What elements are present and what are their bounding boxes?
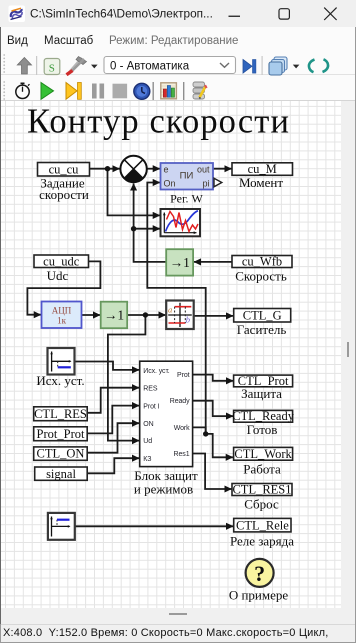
summator — [120, 156, 146, 182]
status divider — [85, 626, 86, 641]
svg-text:b: b — [186, 314, 190, 324]
block CTL_Prot — [234, 374, 293, 388]
step source block 2 — [48, 513, 75, 540]
close button — [324, 8, 336, 20]
svg-text:→1: →1 — [170, 255, 190, 270]
svg-text:Сброс: Сброс — [244, 496, 279, 511]
block CTL_Ready — [232, 409, 295, 423]
gain block 1 — [166, 249, 193, 275]
svg-text:Момент: Момент — [239, 175, 283, 190]
wire CTL_RES to RES — [87, 388, 139, 413]
icon: blue clock — [134, 83, 150, 99]
block Prot_Prot — [34, 427, 87, 441]
separator — [153, 82, 154, 100]
svg-text:АЦП: АЦП — [52, 306, 72, 316]
svg-text:Режим: Редактирование: Режим: Редактирование — [109, 35, 238, 47]
svg-text:C:\SimInTech64\Demo\Электроп..: C:\SimInTech64\Demo\Электроп... — [30, 7, 213, 21]
wire cu_Wfb to gain block — [194, 261, 232, 263]
horizontal scrollbar — [1, 608, 355, 624]
wire ADC to gain block 2 — [82, 314, 101, 316]
wire Prot_Prot to Prot I — [87, 406, 139, 434]
svg-text:cu_udc: cu_udc — [43, 254, 80, 268]
junction Ud — [143, 312, 148, 317]
svg-text:signal: signal — [46, 467, 76, 481]
deadband block — [166, 301, 194, 330]
wire CTL_ON to ON — [87, 423, 139, 453]
svg-text:→1: →1 — [104, 308, 124, 323]
svg-text:1к: 1к — [57, 316, 67, 326]
svg-text:скорости: скорости — [39, 187, 89, 202]
horizontal scrollbar thumb — [169, 613, 187, 615]
svg-text:Работа: Работа — [243, 461, 281, 476]
wire Ud branch to protection block — [108, 315, 145, 441]
svg-text:Work: Work — [174, 425, 190, 432]
svg-text:out: out — [197, 164, 210, 174]
icon: play — [41, 83, 54, 100]
svg-text:Ready: Ready — [170, 398, 190, 405]
icon: database with pencil — [193, 82, 207, 100]
svg-text:Контур скорости: Контур скорости — [27, 103, 290, 141]
block CTL_Work — [234, 447, 293, 461]
icon: pause (disabled) — [92, 84, 104, 99]
toolbar grip row1 — [3, 54, 5, 73]
svg-text:Рег. W: Рег. W — [170, 192, 203, 206]
block CTL_RES — [34, 407, 87, 421]
wire signal to K3 — [87, 458, 139, 473]
vertical scrollbar thumb — [347, 342, 349, 357]
wire Prot output to CTL_Prot — [193, 375, 234, 381]
svg-text:Скорость: Скорость — [235, 268, 287, 283]
junction feedback — [131, 226, 136, 231]
svg-text:Res1: Res1 — [174, 451, 190, 458]
wire cu_cu to summator — [90, 168, 120, 170]
wire Work branch up to PI On — [147, 183, 205, 434]
toolbar row 2 — [1, 75, 355, 101]
block CTL_ON — [34, 447, 87, 461]
icon: tools (hammer + screwdriver) — [67, 57, 87, 75]
wire step source 2 to CTL_Rele — [75, 525, 233, 527]
wire Res1 output to CTL_RES1 — [193, 454, 232, 490]
svg-text:ON: ON — [143, 421, 153, 428]
junction Work — [203, 431, 208, 436]
app icon chip — [9, 6, 26, 23]
svg-text:и режимов: и режимов — [134, 482, 193, 497]
block cu_udc — [34, 254, 89, 268]
svg-text:КЗ: КЗ — [143, 456, 151, 463]
op block PI regulator — [161, 163, 222, 190]
dropdown triangle — [293, 65, 300, 69]
svg-text:Защита: Защита — [241, 386, 282, 401]
window left edge line — [0, 27, 1, 624]
svg-text:Вид: Вид — [7, 35, 28, 47]
icon: stopwatch — [16, 83, 30, 98]
svg-text:cu_Wfb: cu_Wfb — [242, 255, 282, 269]
wire summator to PI input e — [147, 168, 160, 170]
maximize button — [279, 9, 289, 19]
minimize button — [229, 16, 241, 17]
svg-text:cu_cu: cu_cu — [49, 163, 80, 177]
icon: bar chart — [161, 83, 177, 99]
wire speed feedback to summator minus — [134, 184, 167, 262]
schematic canvas — [0, 101, 341, 608]
icon: fast forward to end — [66, 83, 81, 100]
icon: stop (disabled) — [113, 84, 128, 99]
svg-text:Prot_Prot: Prot_Prot — [37, 427, 85, 441]
wire Work output to CTL_Work — [193, 427, 233, 457]
label Блок защит и режимов — [134, 468, 198, 497]
svg-text:CTL_Work: CTL_Work — [234, 447, 292, 461]
block cu_Wfb — [232, 255, 292, 269]
svg-text:Исх. уст.: Исх. уст. — [143, 368, 169, 375]
label Задание скорости — [39, 176, 89, 202]
protection and modes block — [140, 361, 193, 466]
svg-text:?: ? — [254, 561, 265, 586]
svg-text:e: e — [164, 164, 169, 174]
wire branch setpoint to scope input 1 — [108, 169, 160, 216]
combobox — [104, 57, 236, 74]
svg-text:Prot: Prot — [177, 372, 190, 379]
toolbar row 1 — [1, 48, 355, 75]
svg-text:cu_M: cu_M — [248, 162, 277, 176]
svg-text:Готов: Готов — [247, 422, 278, 437]
icon: up arrow (to parent) — [17, 58, 31, 75]
junction setpoint — [105, 166, 110, 171]
svg-text:CTL_Rele: CTL_Rele — [236, 518, 289, 532]
block cu_M — [232, 162, 293, 176]
wire branch feedback to scope input 2 — [134, 228, 160, 230]
icon: script (green S) — [44, 59, 60, 75]
gain block 2 — [101, 302, 128, 329]
wire step source to protection input — [75, 362, 140, 370]
svg-text:Гаситель: Гаситель — [237, 322, 287, 337]
block CTL_RES1 — [232, 482, 292, 496]
svg-text:CTL_RES1: CTL_RES1 — [232, 482, 291, 496]
chrome svg (title, menus, toolbar icons) — [0, 0, 356, 101]
svg-text:О примере: О примере — [229, 587, 289, 602]
icon: layered pages — [269, 57, 287, 75]
icon: teal refresh brackets — [309, 59, 328, 72]
wire deadband to CTL_G — [194, 315, 233, 317]
status bar — [1, 624, 355, 642]
wire Ready output to CTL_Ready — [193, 401, 234, 416]
icon: blue step-run — [243, 60, 256, 74]
svg-text:S: S — [49, 63, 55, 75]
svg-text:CTL_G: CTL_G — [243, 308, 282, 322]
block signal — [35, 467, 87, 481]
toolbar grip row2 — [3, 81, 5, 100]
scope block — [161, 209, 201, 236]
dropdown triangle — [91, 65, 98, 69]
svg-text:Prot I: Prot I — [143, 404, 159, 411]
svg-text:CTL_RES: CTL_RES — [34, 407, 87, 421]
separator — [183, 82, 184, 100]
svg-text:Исх. уст.: Исх. уст. — [36, 373, 84, 388]
separator — [36, 56, 37, 75]
svg-text:On: On — [164, 178, 176, 188]
svg-text:ПИ: ПИ — [180, 171, 194, 182]
block CTL_G — [234, 308, 291, 322]
svg-text:Udc: Udc — [47, 268, 69, 283]
svg-text:Реле заряда: Реле заряда — [230, 534, 294, 549]
block ADC — [42, 302, 82, 329]
block CTL_Rele — [234, 518, 291, 532]
svg-text:Масштаб: Масштаб — [44, 35, 94, 47]
svg-text:pi: pi — [202, 178, 209, 188]
svg-text:a: a — [168, 305, 172, 315]
step source block 1 — [48, 348, 75, 375]
wire cu_udc to ADC — [27, 261, 100, 314]
vertical scrollbar — [341, 101, 355, 608]
svg-text:CTL_ON: CTL_ON — [37, 447, 85, 461]
title bar — [0, 0, 356, 27]
svg-text:RES: RES — [143, 386, 158, 393]
wire PI out to cu_M — [213, 168, 231, 170]
block cu_cu — [38, 163, 90, 177]
help icon — [246, 559, 274, 587]
svg-text:Ud: Ud — [143, 438, 152, 445]
wire gain 2 to deadband — [127, 314, 166, 316]
separator — [262, 56, 263, 75]
svg-text:0 - Автоматика: 0 - Автоматика — [110, 60, 190, 72]
menu bar — [1, 27, 355, 48]
